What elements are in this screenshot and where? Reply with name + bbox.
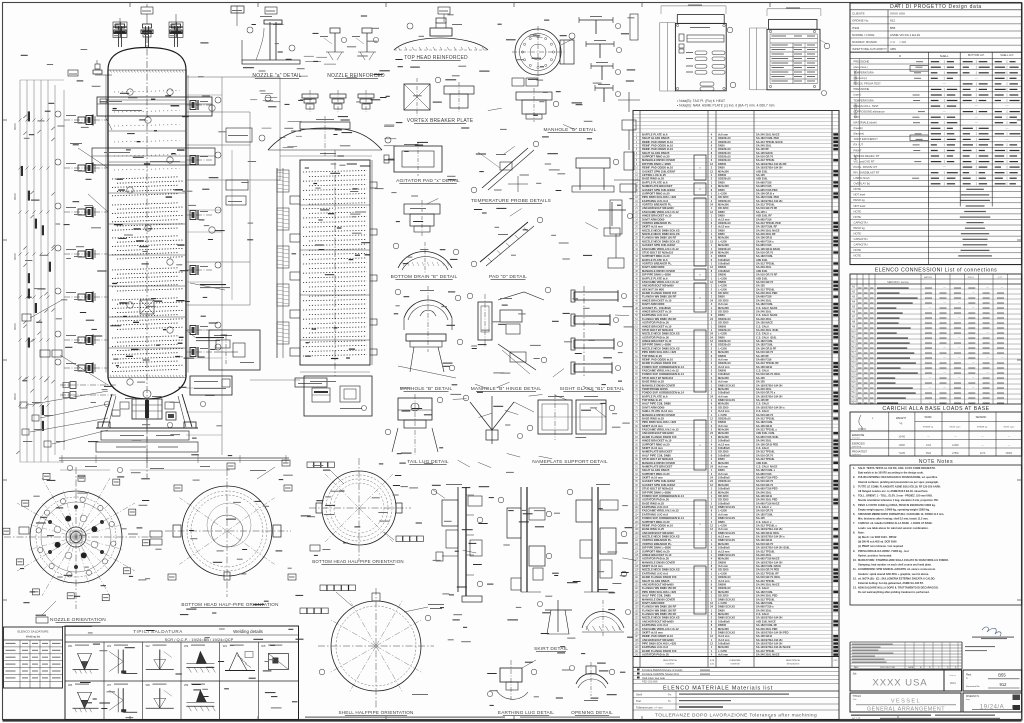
svg-text:DN50: DN50 bbox=[718, 468, 725, 472]
bom footer header band bbox=[633, 656, 839, 658]
svg-text:SUPPORT RING th.20: SUPPORT RING th.20 bbox=[642, 155, 670, 159]
right extension dimension lines bbox=[221, 77, 223, 455]
svg-text:19/24: 19/24 bbox=[950, 682, 957, 685]
svg-text:SA-105: SA-105 bbox=[756, 376, 765, 380]
svg-text:FASCIAME VIROLA N.1 th.12: FASCIAME VIROLA N.1 th.12 bbox=[642, 509, 679, 513]
svg-text:A0 1:25: A0 1:25 bbox=[852, 717, 861, 720]
svg-text:W1: W1 bbox=[107, 644, 112, 648]
bottom drain upper figure bbox=[404, 204, 440, 214]
svg-text:L=1250: L=1250 bbox=[718, 524, 727, 528]
svg-text:SIGHT GLASS DN125: SIGHT GLASS DN125 bbox=[642, 468, 670, 472]
svg-text:OD 2200: OD 2200 bbox=[718, 494, 729, 498]
svg-text:L=1250: L=1250 bbox=[718, 192, 727, 196]
svg-text:SA-516 GR.70: SA-516 GR.70 bbox=[756, 251, 774, 255]
svg-text:6.: 6. bbox=[853, 512, 855, 516]
svg-text:CAPACITA l: CAPACITA l bbox=[854, 237, 869, 241]
svg-text:SA-182 F316L x: SA-182 F316L x bbox=[756, 468, 776, 472]
svg-text:C.S. GALV.: C.S. GALV. bbox=[756, 409, 770, 413]
svg-text:VESSEL: VESSEL bbox=[891, 698, 921, 704]
svg-text:MANHOLE DN500 COVER: MANHOLE DN500 COVER bbox=[642, 413, 675, 417]
svg-text:SA-965 F316: SA-965 F316 bbox=[756, 180, 772, 184]
svg-text:operating: operating bbox=[852, 445, 862, 448]
svg-text:DN50: DN50 bbox=[718, 608, 725, 612]
svg-text:—: — bbox=[958, 336, 961, 339]
svg-text:SA-312 TP316L: SA-312 TP316L bbox=[756, 203, 775, 207]
scattered dimension text marks bbox=[398, 66, 403, 67]
svg-text:BLIND FLANGE DN100 150: BLIND FLANGE DN100 150 bbox=[642, 649, 677, 653]
svg-text:SIGHT GLASS DN125: SIGHT GLASS DN125 bbox=[642, 151, 670, 155]
svg-text:ELENCO SALDATURE: ELENCO SALDATURE bbox=[18, 630, 49, 634]
svg-text:N24: N24 bbox=[851, 402, 856, 404]
svg-text:th.6 mm: th.6 mm bbox=[718, 302, 729, 306]
svg-text:OD 2200: OD 2200 bbox=[718, 594, 729, 598]
svg-text:vd. NOTA (B) - (C) : BULLONERI: vd. NOTA (B) - (C) : BULLONERIA ESTERNA … bbox=[858, 576, 936, 580]
svg-text:OD220x10: OD220x10 bbox=[718, 343, 731, 347]
opening detail figure bbox=[576, 674, 608, 685]
svg-text:L=1250: L=1250 bbox=[718, 601, 727, 605]
section coil dotted rows bbox=[303, 171, 367, 173]
svg-text:MARCATURE: STAMPIGLIARE SIGLA: MARCATURE: STAMPIGLIARE SIGLA COLATA SU … bbox=[858, 558, 949, 562]
svg-text:BLIND FLANGE DN100 150: BLIND FLANGE DN100 150 bbox=[642, 575, 677, 579]
svg-text:—: — bbox=[943, 109, 946, 113]
title box bbox=[850, 693, 961, 712]
svg-text:(c) PWHT non richiesto / not: (c) PWHT non richiesto / not required bbox=[858, 544, 903, 548]
svg-text:—: — bbox=[929, 386, 932, 389]
svg-text:th.6 mm: th.6 mm bbox=[718, 465, 729, 469]
svg-text:NOTE: NOTE bbox=[854, 215, 862, 219]
bottom dimension boxes bbox=[101, 431, 189, 440]
small cert box bbox=[944, 670, 962, 691]
svg-text:NOTE: NOTE bbox=[854, 248, 862, 252]
svg-text:ELENCO MATERIALE Material: ELENCO MATERIALE Materials list bbox=[663, 685, 773, 691]
svg-text:SA-240 316L: SA-240 316L bbox=[756, 144, 772, 148]
svg-text:SA-105 RF: SA-105 RF bbox=[756, 354, 769, 358]
svg-text:4520: 4520 bbox=[926, 452, 932, 455]
svg-text:CLIENTE: CLIENTE bbox=[852, 12, 865, 16]
svg-text:EARTHING LUG th.6: EARTHING LUG th.6 bbox=[642, 623, 668, 627]
svg-text:SA-965 F316: SA-965 F316 bbox=[756, 217, 772, 221]
svg-text:BASE RING th.25: BASE RING th.25 bbox=[642, 417, 664, 421]
svg-text:STUD BOLT B7 M20x110: STUD BOLT B7 M20x110 bbox=[642, 328, 674, 332]
svg-text:DN500: DN500 bbox=[718, 420, 727, 424]
svg-text:M24x300: M24x300 bbox=[718, 428, 729, 432]
svg-text:FASCIAME VIROLA N.1 th.12: FASCIAME VIROLA N.1 th.12 bbox=[642, 627, 679, 631]
bom rows bbox=[633, 110, 839, 112]
svg-text:912: 912 bbox=[1000, 682, 1008, 687]
svg-text:SKIRT th.10 mm: SKIRT th.10 mm bbox=[642, 225, 663, 229]
svg-text:SHEAR kg: SHEAR kg bbox=[977, 426, 988, 429]
svg-text:Gaskets: spiral wound AISI 316: Gaskets: spiral wound AISI 316L + graphi… bbox=[858, 572, 929, 576]
right side nozzles bbox=[186, 104, 212, 106]
svg-text:NOZZLE NECK DN80 SCH.XS: NOZZLE NECK DN80 SCH.XS bbox=[642, 332, 680, 336]
svg-text:NAMEPLATE BRACKET: NAMEPLATE BRACKET bbox=[642, 450, 673, 454]
flat head profile figure bbox=[268, 128, 382, 150]
svg-text:SA-516 GR.70: SA-516 GR.70 bbox=[756, 413, 774, 417]
svg-text:L=1250: L=1250 bbox=[718, 346, 727, 350]
svg-text:DN500: DN500 bbox=[718, 273, 727, 277]
svg-text:MANHOLE DN500 COVER: MANHOLE DN500 COVER bbox=[642, 461, 675, 465]
shell halfpipe orientation circle bbox=[331, 601, 421, 691]
svg-text:NOTE Notes: NOTE Notes bbox=[919, 459, 953, 465]
temperature probe figure bbox=[482, 148, 528, 188]
svg-text:FLANGIA WN DN80 150 RF: FLANGIA WN DN80 150 RF bbox=[642, 295, 677, 299]
svg-text:SA-106 GR.B: SA-106 GR.B bbox=[756, 634, 772, 638]
svg-text:th.6 mm: th.6 mm bbox=[718, 653, 729, 657]
svg-text:AGITATOR PAD th.30: AGITATOR PAD th.30 bbox=[642, 335, 669, 339]
svg-text:FONDO SUP. KORBBOGEN th.14: FONDO SUP. KORBBOGEN th.14 bbox=[642, 372, 684, 376]
svg-text:100x80x8: 100x80x8 bbox=[718, 487, 730, 491]
svg-text:Vedi nota / see note: Vedi nota / see note bbox=[642, 676, 665, 680]
svg-text:NORMAT. BOARD: NORMAT. BOARD bbox=[852, 40, 878, 44]
company box bbox=[850, 670, 944, 691]
svg-text:MAT.: MAT. bbox=[854, 154, 858, 160]
svg-text:HALF PIPE COIL DN80: HALF PIPE COIL DN80 bbox=[642, 402, 671, 406]
date box bbox=[963, 693, 1022, 712]
svg-text:th.12 mm: th.12 mm bbox=[718, 634, 730, 638]
svg-text:th.6 mm: th.6 mm bbox=[718, 380, 729, 384]
svg-text:OPENING DETAIL: OPENING DETAIL bbox=[571, 710, 613, 715]
svg-text:XXXX USA: XXXX USA bbox=[872, 678, 927, 689]
svg-text:SA-965 F316 PED: SA-965 F316 PED bbox=[756, 188, 778, 192]
svg-text:SA-240 316L PED: SA-240 316L PED bbox=[756, 627, 778, 631]
svg-text:GASKET SPW 316L/GRAF: GASKET SPW 316L/GRAF bbox=[642, 188, 676, 192]
svg-text:AISI 316L: AISI 316L bbox=[756, 269, 768, 273]
svg-text:Ts:: Ts: bbox=[668, 699, 672, 703]
svg-text:8.: 8. bbox=[853, 530, 855, 534]
svg-text:• Nota(B): NAM. ASME PLATE (c): • Nota(B): NAM. ASME PLATE (c) ind. d (B… bbox=[677, 104, 775, 108]
svg-text:SKIRT th.10 mm: SKIRT th.10 mm bbox=[642, 446, 663, 450]
svg-text:DAVIT ARM OD60: DAVIT ARM OD60 bbox=[642, 405, 665, 409]
svg-text:100x80x8: 100x80x8 bbox=[718, 372, 730, 376]
svg-text:M24x300: M24x300 bbox=[718, 542, 729, 546]
svg-text:N22: N22 bbox=[851, 392, 856, 394]
svg-text:SA-965 F316 x: SA-965 F316 x bbox=[756, 605, 774, 609]
svg-text:C.S. GALV.: C.S. GALV. bbox=[756, 369, 770, 373]
svg-text:—: — bbox=[929, 401, 932, 404]
svg-text:OD220x10: OD220x10 bbox=[718, 177, 731, 181]
svg-text:SA-965 F316 PED: SA-965 F316 PED bbox=[756, 476, 778, 480]
svg-text:L=1250: L=1250 bbox=[718, 571, 727, 575]
svg-text:ANCHOR BOLT M24x600: ANCHOR BOLT M24x600 bbox=[642, 583, 674, 587]
svg-text:DN80 SCH.XS: DN80 SCH.XS bbox=[718, 597, 735, 601]
svg-text:9.: 9. bbox=[853, 549, 855, 553]
svg-text:DAVIT ARM OD60: DAVIT ARM OD60 bbox=[642, 217, 665, 221]
svg-text:—: — bbox=[929, 306, 932, 309]
svg-text:N10: N10 bbox=[851, 332, 856, 334]
svg-text:0000: 0000 bbox=[13, 193, 17, 200]
top right small figures bbox=[630, 14, 638, 40]
svg-text:SA-965 F316: SA-965 F316 bbox=[756, 243, 772, 247]
svg-text:OD 2200: OD 2200 bbox=[718, 298, 729, 302]
svg-text:DIP PIPE DN40 L=2800: DIP PIPE DN40 L=2800 bbox=[642, 546, 671, 550]
svg-text:NORME / CODE: NORME / CODE bbox=[852, 33, 874, 37]
svg-text:NOZZLE NECK DN80 SCH.XS: NOZZLE NECK DN80 SCH.XS bbox=[642, 616, 680, 620]
svg-text:C.S. GALV. /316L: C.S. GALV. /316L bbox=[756, 335, 777, 339]
svg-text:BOTTOM H.P.: BOTTOM H.P. bbox=[968, 53, 985, 57]
svg-text:ANCHOR BOLT M24x600: ANCHOR BOLT M24x600 bbox=[642, 206, 674, 210]
svg-text:SA-240 316L: SA-240 316L bbox=[756, 439, 772, 443]
svg-text:SA-312 TP316L: SA-312 TP316L bbox=[756, 450, 775, 454]
vortex breaker figure bbox=[404, 84, 430, 110]
svg-text:External bolting: hot dip galv: External bolting: hot dip galvanized, AS… bbox=[858, 581, 924, 585]
svg-text:100x80x8: 100x80x8 bbox=[718, 258, 730, 262]
svg-text:PESO A VUOTO 10490 kg CIRCA, P: PESO A VUOTO 10490 kg CIRCA, PESO IN ESE… bbox=[858, 503, 936, 507]
svg-text:SA-312 TP316L: SA-312 TP316L bbox=[756, 287, 775, 291]
svg-text:M24x300: M24x300 bbox=[718, 490, 729, 494]
svg-text:SA-182 F316L: SA-182 F316L bbox=[756, 339, 773, 343]
svg-text:th.12 mm: th.12 mm bbox=[718, 638, 730, 642]
svg-text:DN80 SCH.XS: DN80 SCH.XS bbox=[718, 383, 735, 387]
trunnions stack figure bbox=[583, 286, 585, 378]
svg-text:DN80 SCH.XS: DN80 SCH.XS bbox=[718, 516, 735, 520]
tail lug figure bbox=[398, 398, 432, 420]
svg-text:REV: REV bbox=[854, 667, 859, 669]
svg-text:C.S. GALV.: C.S. GALV. bbox=[756, 586, 770, 590]
svg-text:N21: N21 bbox=[851, 387, 856, 389]
svg-text:DN500: DN500 bbox=[718, 265, 727, 269]
svg-text:BASE RING th.25: BASE RING th.25 bbox=[642, 177, 664, 181]
nozzle reinforced figures bbox=[330, 28, 340, 33]
svg-text:EARTHING LUG th.6: EARTHING LUG th.6 bbox=[642, 571, 668, 575]
svg-text:SA-240 316L PED: SA-240 316L PED bbox=[756, 498, 778, 502]
bottom drain arc figure bbox=[398, 252, 452, 269]
svg-text:GASKET SPW 316L/GRAF: GASKET SPW 316L/GRAF bbox=[642, 483, 676, 487]
svg-text:MANHOLE DN500 COVER: MANHOLE DN500 COVER bbox=[642, 560, 675, 564]
svg-text:SA-193 B7/SA-194 2H PED: SA-193 B7/SA-194 2H PED bbox=[756, 631, 789, 635]
svg-text:EARTHING LUG th.6: EARTHING LUG th.6 bbox=[642, 313, 668, 317]
svg-text:HINGE BRACKET th.10: HINGE BRACKET th.10 bbox=[642, 214, 672, 218]
svg-text:—: — bbox=[929, 376, 932, 379]
svg-text:NOTE: NOTE bbox=[854, 187, 862, 191]
nameplate figure 2 bbox=[767, 29, 820, 90]
svg-text:DAVIT ARM OD60: DAVIT ARM OD60 bbox=[642, 302, 665, 306]
shell course lines bbox=[108, 99, 186, 101]
svg-text:BLIND FLANGE DN100 150: BLIND FLANGE DN100 150 bbox=[642, 291, 677, 295]
svg-text:VORTEX BREAKER PL.: VORTEX BREAKER PL. bbox=[642, 538, 672, 542]
svg-text:th.12 mm: th.12 mm bbox=[718, 225, 730, 229]
svg-text:C.S. GALV. x: C.S. GALV. x bbox=[756, 332, 772, 336]
svg-text:BASE RING th.25: BASE RING th.25 bbox=[642, 501, 664, 505]
svg-text:EARTHING LUG th.6: EARTHING LUG th.6 bbox=[642, 512, 668, 516]
svg-text:MOM. kgm: MOM. kgm bbox=[1004, 427, 1015, 429]
svg-text:EARTHING LUG th.6: EARTHING LUG th.6 bbox=[642, 645, 668, 649]
svg-text:—: — bbox=[943, 386, 946, 389]
bottom page strip bbox=[305, 717, 505, 718]
svg-text:SKIRT th.10 mm: SKIRT th.10 mm bbox=[642, 564, 663, 568]
svg-text:Shell: Shell bbox=[636, 693, 642, 697]
svg-text:Document No.: Document No. bbox=[966, 685, 980, 688]
svg-text:C.S. GALV.: C.S. GALV. bbox=[756, 446, 770, 450]
svg-text:SA-182 F316L: SA-182 F316L bbox=[756, 512, 773, 516]
svg-text:NDT level: NDT level bbox=[854, 204, 866, 208]
svg-text:SA-182 F316L: SA-182 F316L bbox=[756, 420, 773, 424]
svg-text:FLANGIA WN DN80 150 RF: FLANGIA WN DN80 150 RF bbox=[642, 586, 677, 590]
svg-text:N23: N23 bbox=[851, 397, 856, 399]
svg-text:912: 912 bbox=[890, 19, 895, 23]
small tee right of pad d bbox=[598, 209, 626, 211]
svg-text:PROVA/TEST: PROVA/TEST bbox=[852, 451, 868, 454]
svg-text:SA-240 316L NACE: SA-240 316L NACE bbox=[756, 228, 780, 232]
svg-text:N16: N16 bbox=[851, 362, 856, 364]
svg-text:SKIRT th.10 mm: SKIRT th.10 mm bbox=[642, 476, 663, 480]
svg-text:OD220x10: OD220x10 bbox=[718, 317, 731, 321]
svg-text:□ U □ U2: □ U □ U2 bbox=[890, 40, 906, 44]
svg-text:Internal surfaces: pickling an: Internal surfaces: pickling and passivat… bbox=[858, 480, 939, 484]
svg-text:HINGE BRACKET th.10: HINGE BRACKET th.10 bbox=[642, 324, 672, 328]
svg-text:HEX NUT 2H M20: HEX NUT 2H M20 bbox=[642, 287, 664, 291]
svg-text:ITEM: ITEM bbox=[852, 26, 860, 30]
svg-text:SA-312 TP316L: SA-312 TP316L bbox=[756, 579, 775, 583]
svg-text:DN50: DN50 bbox=[718, 228, 725, 232]
svg-text:4.: 4. bbox=[853, 494, 855, 498]
svg-text:Min. thickness after forming:: Min. thickness after forming: shell 12 m… bbox=[858, 517, 929, 521]
svg-text:—: — bbox=[986, 331, 989, 334]
svg-text:L=1250: L=1250 bbox=[718, 287, 727, 291]
svg-text:OD 2200: OD 2200 bbox=[718, 498, 729, 502]
svg-text:SA-965 F316 /316L: SA-965 F316 /316L bbox=[756, 435, 779, 439]
svg-text:DN80 SCH.XS: DN80 SCH.XS bbox=[718, 505, 735, 509]
svg-text:11800: 11800 bbox=[899, 444, 906, 447]
svg-text:REINF. PAD OD220 th.10: REINF. PAD OD220 th.10 bbox=[642, 524, 674, 528]
svg-text:SA-105 NACE: SA-105 NACE bbox=[756, 151, 773, 155]
svg-text:Job: Job bbox=[853, 673, 858, 676]
svg-text:L=1250: L=1250 bbox=[718, 413, 727, 417]
svg-text:q.ty: q.ty bbox=[710, 662, 715, 666]
svg-text:SA-240 316L: SA-240 316L bbox=[756, 310, 772, 314]
svg-text:—: — bbox=[975, 120, 978, 124]
svg-text:C.S. GALV.: C.S. GALV. bbox=[756, 612, 770, 616]
svg-text:FLANGIA WN DN80 150 RF: FLANGIA WN DN80 150 RF bbox=[642, 612, 677, 616]
svg-text:C.S. GALV. NACE: C.S. GALV. NACE bbox=[756, 465, 778, 469]
svg-text:th.6 mm: th.6 mm bbox=[718, 132, 729, 136]
upper-left nozzle N1 bbox=[95, 74, 112, 76]
svg-text:SA-193 B7/SA-194 2H x: SA-193 B7/SA-194 2H x bbox=[756, 535, 785, 539]
svg-text:NON SALDARE NULLA DOPO IL TRAT: NON SALDARE NULLA DOPO IL TRATTAMENTO DI… bbox=[858, 586, 939, 590]
svg-text:DN500: DN500 bbox=[718, 280, 727, 284]
svg-text:CORROSIONE allowance: CORROSIONE allowance bbox=[854, 109, 886, 113]
svg-text:OD220x10: OD220x10 bbox=[718, 247, 731, 251]
bottom dim callouts bbox=[67, 465, 72, 470]
svg-text:BAFFLE PLATE th.6: BAFFLE PLATE th.6 bbox=[642, 132, 668, 136]
svg-text:M24x300: M24x300 bbox=[718, 203, 729, 207]
svg-text:PULIZIA INTERNA: DECAPAGGIO E: PULIZIA INTERNA: DECAPAGGIO E PASSIVAZIO… bbox=[858, 475, 938, 479]
svg-text:—: — bbox=[1001, 286, 1004, 289]
svg-text:SA-193 B7/SA-194 2H: SA-193 B7/SA-194 2H bbox=[756, 560, 783, 564]
svg-text:DATI DI PROGETTO Design: DATI DI PROGETTO Design data bbox=[890, 4, 982, 10]
svg-text:AGITATOR PAD th.30: AGITATOR PAD th.30 bbox=[642, 653, 669, 657]
svg-text:100x80x8: 100x80x8 bbox=[718, 453, 730, 457]
svg-text:SKIRT th.10 mm: SKIRT th.10 mm bbox=[642, 631, 663, 635]
svg-text:SALD. TESTA-TESTA AL 100 RX, A: SALD. TESTA-TESTA AL 100 RX, ANG. 10 RX … bbox=[858, 466, 936, 470]
svg-text:PROVA IDRAULICA ORIZZ. 71280 k: PROVA IDRAULICA ORIZZ. 71280 kg - test bbox=[858, 549, 909, 553]
svg-text:EARTHING LUG DETAIL: EARTHING LUG DETAIL bbox=[498, 710, 554, 715]
svg-text:100x80x8: 100x80x8 bbox=[718, 476, 730, 480]
svg-text:DN50: DN50 bbox=[718, 210, 725, 214]
svg-text:DN50: DN50 bbox=[718, 214, 725, 218]
svg-text:SA-193 B7/SA-194 2H: SA-193 B7/SA-194 2H bbox=[756, 616, 783, 620]
inset detail box B (nameplate) bbox=[190, 376, 232, 395]
svg-text:SA-516 GR.70: SA-516 GR.70 bbox=[756, 483, 774, 487]
svg-text:SA-193 B7/SA-194 2H NACE: SA-193 B7/SA-194 2H NACE bbox=[756, 645, 791, 649]
svg-text:Loads: see table above for win: Loads: see table above for wind and seis… bbox=[858, 526, 929, 530]
svg-text:SA-106 GR.B PED: SA-106 GR.B PED bbox=[756, 442, 778, 446]
svg-text:BAFFLE PLATE th.6: BAFFLE PLATE th.6 bbox=[642, 258, 668, 262]
svg-text:—: — bbox=[1006, 126, 1009, 130]
svg-text:PIPE DN50 SCH.40S L=320: PIPE DN50 SCH.40S L=320 bbox=[642, 590, 677, 594]
svg-text:SA-240 316L: SA-240 316L bbox=[756, 387, 772, 391]
svg-text:REINF. PAD OD220 th.10: REINF. PAD OD220 th.10 bbox=[642, 147, 674, 151]
svg-text:SA-312 TP316L PED: SA-312 TP316L PED bbox=[756, 221, 781, 225]
svg-text:W3: W3 bbox=[184, 644, 189, 648]
svg-text:C.S. GALV. NACE: C.S. GALV. NACE bbox=[756, 313, 778, 317]
svg-text:OD220x10: OD220x10 bbox=[718, 479, 731, 483]
svg-text:SA-182 F316L RF: SA-182 F316L RF bbox=[756, 225, 778, 229]
svg-text:—: — bbox=[958, 301, 961, 304]
svg-text:OD 2200: OD 2200 bbox=[718, 568, 729, 572]
svg-text:DATA: DATA bbox=[908, 666, 914, 669]
svg-text:—: — bbox=[986, 286, 989, 289]
agitator centre detail bbox=[140, 300, 154, 314]
svg-text:NOZZLE NECK DN80 SCH.XS: NOZZLE NECK DN80 SCH.XS bbox=[642, 568, 680, 572]
svg-text:11.: 11. bbox=[853, 567, 857, 571]
svg-text:SA-312 TP316L NACE: SA-312 TP316L NACE bbox=[756, 140, 783, 144]
svg-text:BAFFLE PLATE th.6: BAFFLE PLATE th.6 bbox=[642, 276, 668, 280]
svg-text:EARTHING LUG th.6: EARTHING LUG th.6 bbox=[642, 505, 668, 509]
svg-text:VORTEX BREAKER PL.: VORTEX BREAKER PL. bbox=[642, 262, 672, 266]
svg-text:W6: W6 bbox=[68, 683, 73, 687]
svg-text:M24x300: M24x300 bbox=[718, 387, 729, 391]
svg-text:SA-182 F316L PED: SA-182 F316L PED bbox=[756, 195, 779, 199]
svg-text:SHELL: SHELL bbox=[940, 54, 949, 58]
svg-text:—: — bbox=[972, 291, 975, 294]
svg-text:SA-240 316L: SA-240 316L bbox=[756, 608, 772, 612]
svg-text:OD220x10: OD220x10 bbox=[718, 151, 731, 155]
svg-text:SA-240 316L RF: SA-240 316L RF bbox=[756, 232, 776, 236]
welding details table bbox=[65, 626, 299, 720]
svg-text:10490: 10490 bbox=[898, 435, 905, 438]
svg-text:BLIND FLANGE DN100 150: BLIND FLANGE DN100 150 bbox=[642, 435, 677, 439]
svg-text:(b) DN 40 sch.40S vd. DCR 016: (b) DN 40 sch.40S vd. DCR 0166 bbox=[858, 540, 897, 544]
svg-text:OD220x10: OD220x10 bbox=[718, 575, 731, 579]
svg-text:ESERCIZIO: ESERCIZIO bbox=[852, 443, 865, 446]
svg-text:DN500: DN500 bbox=[718, 369, 727, 373]
svg-text:FONDO SUP. KORBBOGEN th.14: FONDO SUP. KORBBOGEN th.14 bbox=[642, 391, 684, 395]
svg-text:XXXX USA: XXXX USA bbox=[890, 12, 905, 16]
svg-text:—: — bbox=[975, 104, 978, 108]
svg-text:SA-516 GR.70 /316L: SA-516 GR.70 /316L bbox=[756, 372, 781, 376]
svg-text:—: — bbox=[958, 316, 961, 319]
svg-text:2.: 2. bbox=[853, 475, 855, 479]
svg-text:—: — bbox=[975, 115, 978, 119]
svg-text:OD220x10: OD220x10 bbox=[718, 136, 731, 140]
svg-text:Tolleranze gen. +/- mm: Tolleranze gen. +/- mm bbox=[636, 705, 662, 709]
svg-text:NAMEPLATE BRACKET: NAMEPLATE BRACKET bbox=[642, 465, 673, 469]
svg-text:W0: W0 bbox=[68, 644, 73, 648]
svg-text:SUPPORT RING th.20: SUPPORT RING th.20 bbox=[642, 442, 670, 446]
svg-text:DN80 SCH.XS: DN80 SCH.XS bbox=[718, 538, 735, 542]
svg-text:DN50: DN50 bbox=[718, 232, 725, 236]
svg-text:QTY: QTY bbox=[998, 277, 1003, 279]
lower-left nozzle leaders bbox=[28, 391, 108, 405]
svg-text:SA-240 316L /316L: SA-240 316L /316L bbox=[756, 328, 779, 332]
svg-text:OD 2200: OD 2200 bbox=[718, 405, 729, 409]
lower angled nozzles bbox=[60, 355, 108, 385]
svg-text:10.: 10. bbox=[853, 558, 857, 562]
svg-text:FLANGIA WN DN80 150 RF: FLANGIA WN DN80 150 RF bbox=[642, 236, 677, 240]
svg-text:N11: N11 bbox=[851, 337, 856, 339]
svg-text:M24x300: M24x300 bbox=[718, 461, 729, 465]
drawing number box bbox=[963, 670, 1022, 691]
